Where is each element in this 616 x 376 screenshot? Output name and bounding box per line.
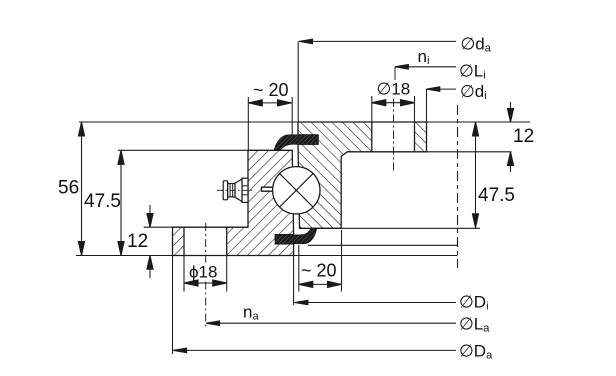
ball raceway clearance [272,166,320,214]
center dash-dot lines [205,223,207,263]
leader for diameter d_a [299,40,456,42]
nipple center line [217,189,252,191]
dimension 12 (lip thickness, right) [510,102,512,122]
svg-text:∅Da: ∅Da [459,342,493,362]
svg-text:~ 20: ~ 20 [301,261,337,281]
svg-text:12: 12 [127,231,148,252]
dimension 56 (overall height, left) [81,122,83,256]
svg-text:∅Li: ∅Li [459,61,486,81]
ball cross [280,174,313,207]
H inner bottom ext y=228.3 [312,227,480,229]
leader for outside diameter D_a [173,349,456,351]
svg-text:ϕ18: ϕ18 [189,263,217,282]
H outer top face ext y=150.3 [118,149,248,151]
svg-text:na: na [243,303,259,323]
H flange top ext y=227.2 [144,226,173,228]
H bottom face ext y=255.5 [76,255,458,257]
svg-text:ni: ni [418,47,430,67]
leader for bolt circle L_i [395,66,456,68]
dimension 47.5 (outer ring height, left) [120,150,122,255]
svg-text:56: 56 [58,177,79,198]
H lip underside ext y=151.8 [427,151,512,153]
dimension ~20 (outer ring top width) [248,102,291,104]
H mystery line y=245.3 [308,244,458,246]
dimension 47.5 (inner ring height, right) [475,122,477,228]
leader for bore d_i [426,88,456,90]
dimension ~20 (inner ring bottom width) [299,283,342,285]
svg-text:∅da: ∅da [461,34,492,54]
ball [273,167,320,214]
svg-text:∅18: ∅18 [377,80,411,99]
svg-text:~ 20: ~ 20 [253,80,289,100]
dimension 12 (flange thickness, left) [149,205,151,227]
outer ring (left, section with / hatch) [173,150,294,255]
top seal [274,135,318,150]
bottom seal [275,229,316,244]
svg-text:∅La: ∅La [459,315,490,335]
grease nipple [223,178,248,202]
leader for diameter D_i [295,302,457,304]
svg-text:47.5: 47.5 [84,191,121,212]
svg-text:12: 12 [513,126,534,147]
V ext lines [172,256,174,355]
leader for bolt circle L_a [206,322,456,324]
svg-text:∅di: ∅di [460,82,487,102]
H top face / ext y=122 [79,121,530,123]
svg-text:47.5: 47.5 [478,185,515,206]
dimension phi18 (outer ring bolt hole) [184,282,227,284]
dimension O18 (inner ring bolt hole) [372,102,415,104]
axis dashed [457,105,459,268]
svg-text:∅Di: ∅Di [459,293,489,313]
inner ring (right, section with \ hatch) [298,122,427,228]
